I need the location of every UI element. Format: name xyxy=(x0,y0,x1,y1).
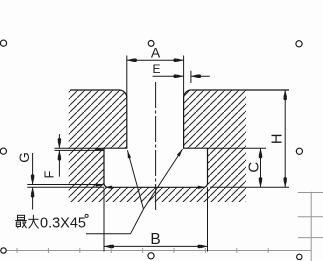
svg-text:A: A xyxy=(151,44,161,60)
dimension F xyxy=(55,134,105,177)
dimension B xyxy=(104,187,208,251)
svg-text:E: E xyxy=(152,62,160,76)
svg-text:C: C xyxy=(245,162,262,173)
svg-text:G: G xyxy=(17,152,32,163)
grip circles xyxy=(0,40,302,260)
glyph 大 xyxy=(28,218,38,220)
svg-text:B: B xyxy=(150,231,160,248)
right fillet arrow xyxy=(198,186,206,189)
part outline xyxy=(70,90,207,187)
dimension A xyxy=(127,56,184,98)
svg-text:H: H xyxy=(269,133,285,143)
chamfer leader xyxy=(86,149,183,234)
svg-text:F: F xyxy=(42,170,56,178)
top surface right + H top extension xyxy=(191,89,289,91)
dimension G xyxy=(27,153,104,210)
glyph 最 xyxy=(18,215,25,220)
sheet bottom ruled line xyxy=(0,248,311,253)
section hatch fill xyxy=(60,85,255,205)
title block grid fragment xyxy=(298,192,323,261)
dimension H xyxy=(210,90,289,187)
chamfer note text: 最大0.3X45° xyxy=(15,215,38,229)
bottom width arrow left xyxy=(104,186,112,189)
centerline xyxy=(155,82,157,210)
svg-text:0.3X45: 0.3X45 xyxy=(40,215,86,231)
dimension E xyxy=(153,71,210,83)
dimension C xyxy=(210,148,267,187)
